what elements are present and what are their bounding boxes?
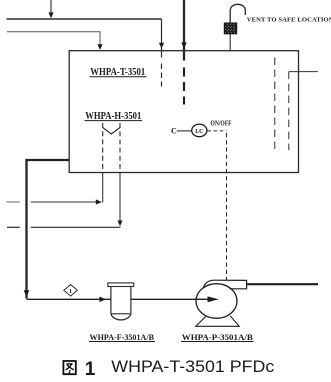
svg-text:C: C [171, 126, 177, 135]
wire: tank outlet nozzle [26, 159, 70, 161]
internal standpipe dashed (right) [288, 72, 290, 150]
wire: heater return line [31, 226, 121, 228]
dip tube dashed inside tank (x184, thick) [183, 68, 185, 105]
heater tube dashed (left) [102, 123, 104, 173]
specialty item diamond 1 [64, 285, 78, 296]
wire: overflow line to right [289, 71, 318, 73]
wire: heater return stub (left of break) [7, 226, 20, 228]
arrowhead heater supply [96, 199, 102, 204]
filter bottom dome [111, 314, 131, 320]
svg-text:LC: LC [195, 128, 203, 135]
wire: header drop to tank nozzle [161, 19, 163, 58]
vent riser from tank top [229, 34, 231, 51]
wire: second feed line [7, 32, 100, 46]
arrowhead into pump [208, 296, 219, 302]
wire: heater return drop from tank bottom [119, 173, 121, 223]
wire: C to instrument [177, 130, 192, 132]
signal dashed line down to pump [226, 133, 228, 280]
heater tube dashed (right) [119, 123, 121, 173]
arrowhead heater return [117, 221, 122, 227]
svg-text:VENT TO SAFE LOCATION: VENT TO SAFE LOCATION [247, 16, 331, 23]
svg-text:1: 1 [85, 359, 96, 380]
pump base [196, 316, 240, 327]
instrument LC [192, 124, 207, 137]
arrowhead onto top header [48, 12, 53, 18]
svg-text:1: 1 [69, 289, 72, 295]
arrowhead second feed at tank top [97, 44, 102, 50]
heater U-tube V connector [103, 128, 120, 135]
vent gooseneck [230, 4, 245, 24]
filter WHPA-F-3501A/B : flange [108, 283, 134, 287]
flame arrestor [224, 23, 236, 34]
pump volute and discharge nozzle [203, 280, 246, 289]
arrowhead on nozzle at tank top [159, 43, 164, 49]
filter body [111, 287, 131, 314]
arrowhead main feed at tank top [181, 43, 187, 49]
svg-text:WHPA-T-3501: WHPA-T-3501 [90, 66, 145, 78]
wire: feed branch riser into top header [50, 0, 52, 14]
pump WHPA-P-3501A/B : casing [196, 284, 237, 319]
svg-text:ON/OFF: ON/OFF [211, 121, 232, 128]
wire: pump discharge line [247, 283, 318, 285]
svg-text:WHPA-T-3501 PFDc: WHPA-T-3501 PFDc [111, 357, 275, 376]
svg-text:WHPA-P-3501A/B: WHPA-P-3501A/B [182, 332, 253, 342]
wire: outlet downcomer (thick) [25, 159, 27, 299]
tank WHPA-T-3501 [69, 51, 298, 173]
wire: main feed riser (thick) [183, 0, 185, 61]
wire: pump suction header [27, 298, 111, 300]
arrowhead down on downcomer [24, 290, 30, 297]
signal dashed line LC to valve corner [208, 130, 227, 132]
wire: heater supply riser to tank bottom [102, 173, 104, 203]
dip tube dashed inside tank (x161) [161, 64, 163, 87]
wire: heater supply stub (left of break) [6, 201, 19, 203]
arrowhead into filter [99, 297, 105, 303]
caption CJK character 图 (drawn) [63, 361, 75, 374]
wire: filter to pump suction [131, 298, 214, 300]
wire: heater supply line [31, 201, 98, 203]
wire: top header line [7, 18, 162, 20]
svg-text:WHPA-F-3501A/B: WHPA-F-3501A/B [90, 332, 155, 342]
internal standpipe dashed (left) [274, 58, 276, 151]
